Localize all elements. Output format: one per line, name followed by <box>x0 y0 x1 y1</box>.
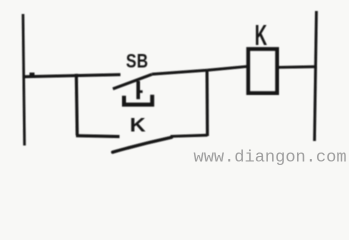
wire: SB right terminal to junction node <box>152 70 208 74</box>
relay contact K moving blade <box>113 137 172 152</box>
wire: left rail to SB left terminal <box>23 75 121 77</box>
left supply rail <box>23 14 25 146</box>
svg-text:K: K <box>255 19 267 51</box>
right supply rail <box>315 11 317 141</box>
svg-text:www.diangon.com: www.diangon.com <box>194 148 347 167</box>
wire: coil K right terminal to right rail <box>277 65 316 69</box>
relay coil K body <box>248 49 277 93</box>
junction blob at left rail <box>30 73 35 76</box>
svg-text:K: K <box>130 115 146 136</box>
pushbutton SB actuator cap bracket <box>124 95 152 105</box>
pushbutton SB actuator stem <box>136 81 140 99</box>
wire: bottom branch left segment <box>76 134 120 138</box>
svg-text:SB: SB <box>126 50 148 72</box>
wire: branch rise to junction node (right side of parallel branch) <box>206 70 209 136</box>
pushbutton SB actuator stem tick <box>140 90 143 93</box>
wire: bottom branch right segment <box>171 135 208 136</box>
wire: junction node to coil K left terminal <box>208 66 249 70</box>
wire: branch drop from main wire (left side of parallel branch) <box>75 74 79 136</box>
pushbutton SB moving contact blade <box>113 74 152 89</box>
